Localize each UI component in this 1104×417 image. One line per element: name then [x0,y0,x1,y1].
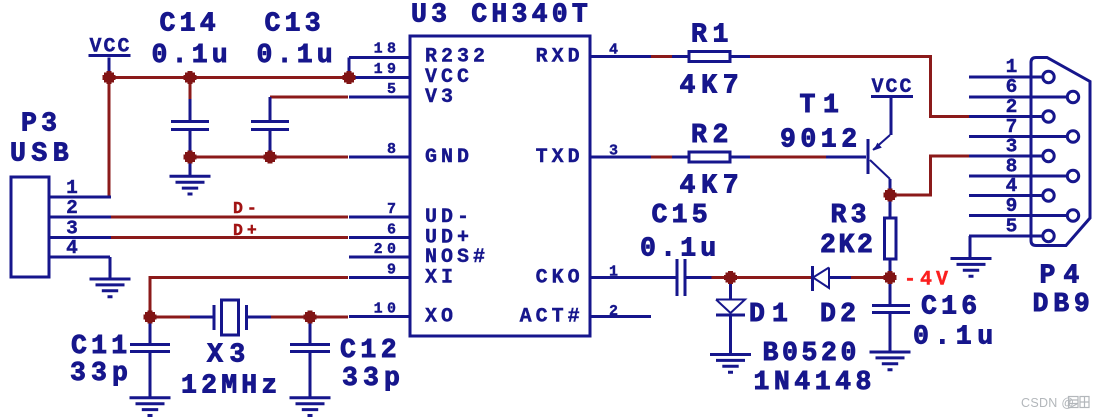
svg-text:D-: D- [233,199,261,218]
svg-text:B0520: B0520 [763,338,861,368]
svg-text:GND: GND [425,146,473,169]
svg-text:D2: D2 [820,299,860,329]
svg-text:TXD: TXD [536,146,584,169]
svg-text:6: 6 [387,222,400,239]
svg-text:-4V: -4V [904,269,952,292]
svg-text:RXD: RXD [536,46,584,69]
svg-text:19: 19 [374,61,401,78]
svg-text:2: 2 [1006,96,1018,118]
svg-text:2: 2 [66,197,78,219]
svg-text:C14: C14 [160,9,220,39]
svg-text:9012: 9012 [780,125,862,155]
svg-text:C11: C11 [71,331,131,361]
svg-text:9: 9 [1006,195,1018,217]
svg-text:V3: V3 [425,86,457,109]
svg-text:ACT#: ACT# [520,305,584,328]
svg-text:0.1u: 0.1u [913,322,999,352]
svg-text:5: 5 [387,81,400,98]
svg-text:R2: R2 [691,120,734,150]
svg-text:0.1u: 0.1u [640,234,720,264]
svg-text:7: 7 [387,201,400,218]
svg-text:33p: 33p [70,358,133,388]
svg-text:X3: X3 [207,340,252,370]
svg-text:33p: 33p [342,363,405,393]
svg-text:5: 5 [1006,216,1018,238]
svg-text:1: 1 [66,177,78,199]
svg-text:18: 18 [374,41,401,58]
svg-text:8: 8 [387,141,400,158]
svg-text:4K7: 4K7 [680,71,745,101]
svg-text:CKO: CKO [536,267,584,290]
svg-text:CSDN @: CSDN @ [1021,396,1074,410]
svg-text:R3: R3 [831,200,871,230]
svg-text:4: 4 [66,237,78,259]
svg-text:U3 CH340T: U3 CH340T [411,0,592,30]
svg-text:9: 9 [387,262,400,279]
svg-text:T1: T1 [800,90,847,120]
svg-text:P3: P3 [21,109,61,139]
svg-text:DB9: DB9 [1033,289,1095,319]
svg-text:XI: XI [425,267,457,290]
svg-text:3: 3 [1006,136,1018,158]
svg-text:2: 2 [609,303,622,320]
svg-text:0.1u: 0.1u [152,40,232,70]
svg-text:0.1u: 0.1u [257,40,337,70]
svg-text:C15: C15 [652,200,712,230]
svg-text:10: 10 [374,301,401,318]
svg-text:2K2: 2K2 [820,230,876,260]
svg-text:C12: C12 [340,335,401,365]
svg-text:D+: D+ [233,221,261,240]
svg-text:1: 1 [1006,56,1018,78]
svg-text:6: 6 [1006,76,1018,98]
svg-text:3: 3 [609,143,622,160]
svg-text:P4: P4 [1040,261,1088,291]
svg-text:R1: R1 [691,20,734,50]
svg-text:XO: XO [425,306,457,329]
svg-text:1: 1 [609,263,622,280]
svg-text:D1: D1 [749,299,795,329]
svg-text:4K7: 4K7 [680,171,745,201]
svg-text:4: 4 [1006,175,1018,197]
svg-text:20: 20 [374,241,401,258]
svg-text:C13: C13 [265,9,325,39]
svg-text:C16: C16 [921,292,981,322]
svg-text:1N4148: 1N4148 [754,367,876,397]
svg-text:USB: USB [10,139,74,169]
svg-text:4: 4 [609,42,622,59]
svg-text:12MHz: 12MHz [181,371,282,401]
